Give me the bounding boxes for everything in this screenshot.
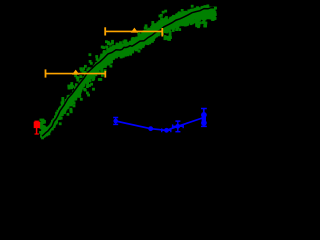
green scatter band [39, 5, 217, 140]
blue point A errorbar [115, 117, 117, 124]
red point with error bar [34, 121, 39, 134]
blue point C errorbar [162, 129, 171, 131]
blue point D errorbars [177, 121, 179, 132]
blue point B [148, 126, 153, 131]
blue point E errorbar and double marker [203, 108, 205, 126]
blue curve with error bars [116, 118, 204, 131]
black fit line through green band [42, 8, 214, 137]
orange limit bar lower-left [46, 69, 106, 77]
orange limit bar upper [105, 27, 162, 36]
chart: scatter plot on black background [0, 0, 229, 171]
